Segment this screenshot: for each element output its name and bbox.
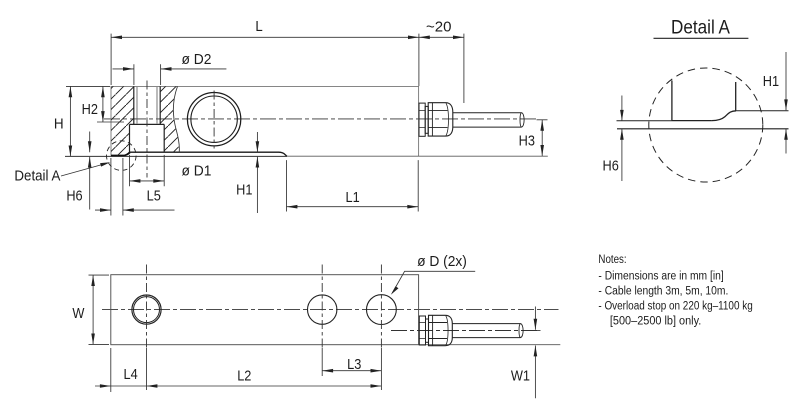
- svg-text:ø D (2x): ø D (2x): [417, 253, 467, 270]
- svg-text:L: L: [255, 17, 262, 34]
- dimension ø D2: [134, 64, 161, 85]
- detail A: pad bottom: [672, 120, 712, 122]
- dimension L: [111, 34, 419, 86]
- cable (side view): [453, 113, 522, 127]
- dimension L5 (main view): [111, 158, 123, 216]
- plan gland nut body: [429, 315, 453, 345]
- detail A indication dashed circle on side view: [107, 141, 137, 171]
- svg-text:H2: H2: [82, 100, 99, 117]
- wire: base plane / bottom edge line: [65, 155, 287, 157]
- detail A: hole wall: [735, 82, 737, 111]
- svg-text:L5: L5: [147, 187, 161, 204]
- mounting hole (ø D1) in plan: outer circle: [132, 295, 161, 324]
- svg-text:H6: H6: [603, 156, 620, 173]
- plan gland ring: [426, 319, 429, 342]
- svg-text:H1: H1: [236, 181, 253, 198]
- dimension H6 (detail): [621, 96, 623, 182]
- cable gland (side view): collar: [419, 103, 425, 136]
- threaded hole thread thin lines: [137, 87, 157, 124]
- svg-text:[500–2500 lb] only.: [500–2500 lb] only.: [610, 315, 701, 328]
- dimension W: [89, 275, 110, 344]
- wire: main horizontal centerline of side view: [104, 118, 537, 120]
- svg-text:L2: L2: [237, 366, 251, 383]
- cable gland nut body: [428, 103, 453, 136]
- detail A: ramp curve: [712, 111, 736, 121]
- detail A: upper flat + extension to H1: [736, 110, 788, 112]
- svg-text:H6: H6: [66, 187, 83, 204]
- cable end cap (plan): [519, 324, 523, 338]
- load hole 3 (ø D): [367, 295, 397, 325]
- dimension ø D1: [130, 155, 165, 186]
- wire: vertical centerline hole 2: [321, 265, 323, 348]
- cable gland ring: [425, 106, 428, 133]
- dimension H2: [97, 121, 124, 123]
- svg-text:H: H: [54, 116, 64, 133]
- detail A: foot wall: [671, 81, 673, 121]
- svg-text:- Cable length 3m, 5m, 10m.: - Cable length 3m, 5m, 10m.: [598, 285, 728, 298]
- svg-text:H1: H1: [763, 72, 780, 89]
- detail A title underline: [654, 37, 749, 39]
- cable gland (plan view): collar: [419, 316, 425, 345]
- detail A: pad bottom extension to left: [617, 120, 672, 122]
- svg-text:W1: W1: [511, 366, 530, 383]
- wire: vertical centerline of circle: [213, 91, 215, 149]
- svg-text:Detail A: Detail A: [14, 167, 61, 184]
- load cell body outline (side view), thin grey: [111, 86, 419, 156]
- leader: ø D (2x): [392, 271, 475, 293]
- wire: bottom edge extension line to right: [419, 344, 561, 346]
- dimension H1 (detail): [785, 52, 787, 154]
- svg-text:L4: L4: [124, 365, 138, 382]
- detail A dashed circle: [649, 68, 763, 182]
- svg-text:H3: H3: [519, 132, 536, 149]
- svg-text:- Overload stop on 220 kg–1100: - Overload stop on 220 kg–1100 kg: [598, 300, 752, 313]
- hatched section: right part of mounting block with break line: [160, 86, 179, 152]
- svg-text:L3: L3: [347, 355, 361, 372]
- wire: vertical centerline hole 1: [146, 265, 148, 348]
- notes block: [598, 253, 752, 328]
- load hole 2 (ø D): [308, 295, 337, 324]
- wire: underside relieved line with step down to base at right: [130, 152, 287, 156]
- svg-text:Detail A: Detail A: [671, 17, 731, 38]
- dimension H3: [537, 119, 548, 121]
- mounting hole chamfer circle: [134, 297, 160, 323]
- wire: plan gland centerline: [391, 330, 539, 332]
- through hole circle (side view) outer: [187, 93, 240, 146]
- foot pad bottom (thick) and ramp: [111, 152, 130, 155]
- dimension H6 (main view): [89, 132, 91, 210]
- threaded hole (top, ø D2): edges: [134, 86, 160, 124]
- through hole circle inner (chamfer): [191, 96, 237, 142]
- lower hole (ø D1) edges: [130, 124, 165, 152]
- svg-text:L1: L1: [346, 188, 360, 205]
- svg-text:Notes:: Notes:: [598, 253, 626, 266]
- hatched section: left part of mounting block: [111, 86, 134, 155]
- leader: Detail A callout: [61, 164, 106, 176]
- dimension L3: [322, 370, 381, 372]
- plan view body rectangle: [111, 275, 419, 345]
- dimension L4 / L2 shared line: [111, 348, 382, 392]
- detail A: base line: [617, 128, 789, 130]
- svg-text:ø D2: ø D2: [182, 52, 212, 69]
- break (wavy) line right boundary of section: [173, 86, 179, 152]
- svg-text:W: W: [72, 304, 85, 321]
- svg-text:ø D1: ø D1: [182, 163, 212, 180]
- wire: vertical centerline through mounting hole: [146, 81, 148, 178]
- wire: vertical centerline hole 3: [380, 265, 382, 348]
- dimension H1 (main view): [256, 132, 258, 213]
- svg-text:- Dimensions are in mm [in]: - Dimensions are in mm [in]: [598, 270, 723, 283]
- counterbore shoulder line: [130, 123, 165, 125]
- gland nut hex lines: [431, 103, 433, 136]
- dimension L1: [287, 160, 419, 211]
- dimension ~20: [463, 34, 465, 103]
- wire: plan view horizontal centerline: [102, 309, 559, 311]
- svg-text:~20: ~20: [426, 18, 451, 35]
- wire: body underside right section + H3 extension: [287, 155, 548, 157]
- dimension H: [66, 85, 110, 87]
- cable end cap: [520, 113, 524, 127]
- cable (plan view): [452, 324, 520, 338]
- dimension W1: [534, 307, 536, 399]
